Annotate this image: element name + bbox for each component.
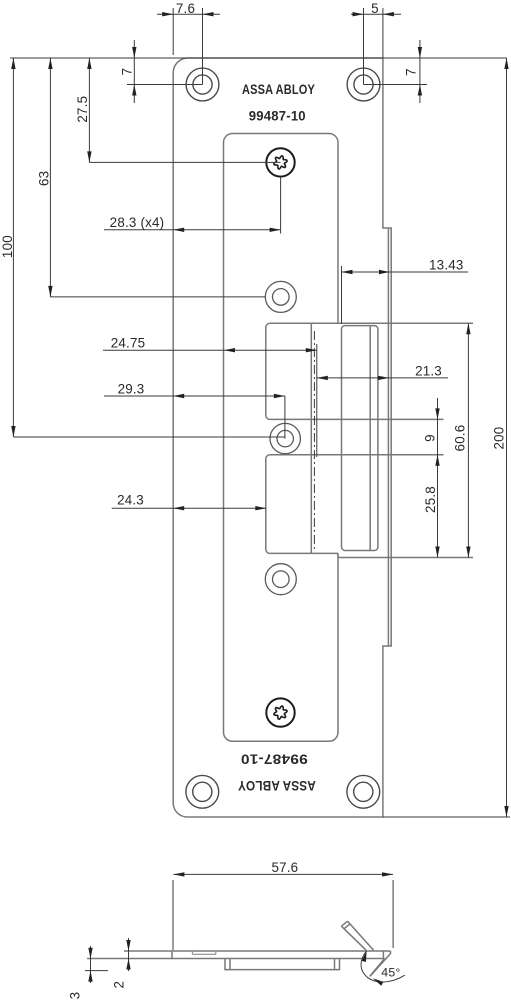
arrow 7L bottom (132, 85, 136, 96)
upper cutout left edge (266, 323, 270, 419)
side hole tick 2 (215, 951, 217, 954)
ext line tongue left up (341, 266, 343, 324)
dim line 13.43 (342, 271, 468, 273)
arrow 100 top (11, 58, 15, 69)
ext line 21.3/24.75 (316, 344, 318, 457)
latch bottom step vertical (337, 553, 339, 557)
arrow 29.3 left (173, 394, 184, 398)
svg-text:200: 200 (491, 427, 506, 450)
svg-text:9: 9 (422, 434, 437, 442)
svg-text:29.3: 29.3 (118, 381, 145, 396)
ext line torx center down (280, 177, 282, 234)
torx star at 280.5,162.4 (274, 156, 287, 169)
latch tongue box (342, 326, 378, 551)
arrow 24.3 left (173, 506, 184, 510)
torx screw circle at 280.5,712.6 (266, 698, 294, 726)
arrow 9 bottom (435, 455, 439, 466)
dim line 9 and 25.8 (437, 398, 439, 558)
arrow 5 left (353, 12, 364, 16)
45 degree arc (361, 951, 405, 982)
arrow 21.3 right (378, 376, 389, 380)
arrow 5 right (383, 12, 394, 16)
side hole tick 1 (191, 951, 193, 954)
center hole outer (270, 423, 300, 453)
arrow 100 bottom (11, 426, 15, 437)
arrow 27.5 top (87, 58, 91, 69)
dim line 100 (12, 58, 14, 437)
arrow 28.3 right (270, 228, 281, 232)
dim line 60.6 (467, 323, 469, 557)
svg-text:60.6: 60.6 (452, 425, 467, 452)
dim line 27.5 (88, 58, 90, 162)
adjustment hole inner at 280.8,296.9 (273, 289, 290, 306)
arrow 3 bottom (88, 971, 92, 982)
dim line 28.3 (104, 229, 281, 231)
latch recess vertical V3 (310, 323, 312, 553)
arrow 24.75 right (306, 348, 317, 352)
mounting hole inner at 363.5,84.5 (354, 75, 373, 94)
svg-text:5: 5 (371, 1, 379, 16)
ext line left hole center (202, 8, 204, 85)
dim line 57.6 (173, 873, 393, 875)
svg-text:2: 2 (111, 981, 126, 989)
lip inner edge line (387, 229, 389, 646)
dim line 7 right (419, 40, 421, 103)
raised panel left/bottom edges (224, 143, 339, 742)
bent tab (side view) (341, 921, 373, 950)
adjustment hole outer at 280.8,296.9 (265, 281, 296, 312)
latch mid edge H4 (270, 454, 444, 456)
mounting hole inner at 202.5,84.5 (193, 75, 212, 94)
dim line 7.6 (157, 13, 220, 15)
dim line 29.3 (104, 395, 285, 397)
adjustment hole inner at 280.8,579.2 (273, 571, 290, 588)
center hole inner (277, 430, 293, 446)
svg-text:3: 3 (67, 992, 82, 1000)
mounting hole outer at 363.5,84.5 (347, 68, 380, 101)
dim line 200 (506, 58, 508, 817)
side view bar bottom edge (87, 958, 385, 960)
svg-text:100: 100 (0, 235, 15, 258)
arrow 45 arc bottom (373, 978, 384, 985)
ext line 57.6 left (172, 880, 174, 950)
arrow 63 bottom (48, 286, 52, 297)
top hole centerline left (127, 84, 203, 86)
ext line center hole up (284, 396, 286, 439)
dim line 7 left (133, 40, 135, 103)
svg-text:7.6: 7.6 (176, 1, 195, 16)
arrow 2 bottom (126, 959, 130, 970)
adjustment hole outer at 280.8,579.2 (265, 564, 296, 595)
arrow 13.43 left (342, 270, 353, 274)
dim line 24.75 (103, 349, 317, 351)
svg-text:7: 7 (403, 68, 418, 76)
arrow 45 arc top (362, 951, 367, 962)
arrow 60.6 bottom (466, 547, 470, 558)
ref line hole y296 (50, 296, 265, 298)
svg-text:ASSA ABLOY: ASSA ABLOY (242, 81, 315, 97)
ext line plate left corner (172, 8, 174, 55)
arrow 29.3 right (274, 394, 285, 398)
arrow 7R top (418, 47, 422, 58)
svg-text:28.3 (x4): 28.3 (x4) (110, 215, 165, 230)
arrow 7L top (132, 47, 136, 58)
dim line 21.3 (317, 377, 448, 379)
bottom edge extension line (383, 816, 510, 818)
raised panel top/right edges (224, 134, 339, 324)
svg-text:7: 7 (119, 68, 134, 76)
arrow 7R bottom (418, 85, 422, 96)
svg-text:21.3: 21.3 (415, 363, 442, 378)
side view bar left end cap (171, 951, 173, 959)
side hole depth line (192, 953, 215, 955)
arrow 28.3 left (173, 228, 184, 232)
ext line plate right corner (382, 8, 384, 58)
arrow 57.6 left (173, 872, 184, 876)
arrow 9 top (435, 408, 439, 419)
top edge extension line (10, 57, 507, 59)
mounting hole outer at 202.5,84.5 (186, 68, 219, 101)
svg-text:ASSA ABLOY: ASSA ABLOY (237, 778, 315, 794)
torx star at 280.5,712.6 (274, 706, 287, 719)
arrow 7.6 left (162, 12, 173, 16)
side view raised panel box (225, 959, 340, 970)
svg-text:13.43: 13.43 (429, 257, 464, 272)
strike plate outline (front view) (173, 58, 391, 817)
45 deg lip wedge (370, 951, 391, 976)
arrow 27.5 bottom (87, 151, 91, 162)
latch mid edge H3 (270, 418, 444, 420)
latch top edge H1 (270, 322, 473, 324)
side view bar top edge (124, 950, 391, 952)
svg-text:25.8: 25.8 (423, 486, 438, 513)
arrow 57.6 right (382, 872, 393, 876)
arrow 13.43 right (379, 270, 390, 274)
dim line 5 (351, 13, 401, 15)
panel wall inner left (229, 959, 231, 970)
ext line right hole center (363, 8, 365, 85)
tongue inner vertical V7 (369, 326, 371, 551)
mounting hole outer at 363.3,791.8 (347, 775, 380, 808)
svg-text:99487-10: 99487-10 (249, 107, 306, 123)
svg-text:99487-10: 99487-10 (241, 752, 308, 768)
torx screw circle at 280.5,162.4 (266, 148, 294, 176)
latch bottom step line H7 (338, 557, 473, 559)
arrow 200 bottom (504, 806, 508, 817)
dim line 2 (128, 938, 130, 971)
svg-text:24.3: 24.3 (117, 492, 144, 507)
ref line torx center y (89, 161, 280, 163)
arrow 3 top (88, 948, 92, 959)
arrow 200 top (504, 58, 508, 69)
top hole centerline right (364, 84, 428, 86)
dim line 24.3 (112, 507, 267, 509)
dim line 3 (90, 946, 92, 983)
ref line 100 bottom (13, 436, 285, 438)
svg-text:27.5: 27.5 (75, 96, 90, 123)
dim line 63 (49, 58, 51, 297)
arrow 60.6 top (466, 323, 470, 334)
ref tick 3 bottom (85, 970, 108, 972)
mounting hole inner at 363.3,791.8 (354, 782, 373, 801)
lower cutout left edge (266, 455, 270, 554)
svg-text:45°: 45° (381, 966, 400, 980)
mounting hole inner at 202.3,791.8 (193, 782, 212, 801)
latch centerline dash-dot (313, 331, 315, 549)
lower cutout bottom edge H6 (270, 552, 338, 554)
svg-text:57.6: 57.6 (271, 860, 298, 875)
svg-text:24.75: 24.75 (111, 336, 146, 351)
arrow 24.3 right (255, 506, 266, 510)
arrow 2 top (126, 940, 130, 951)
mounting hole outer at 202.3,791.8 (186, 775, 219, 808)
arrow 21.3 left (317, 376, 328, 380)
arrow 25.8 bottom (435, 547, 439, 558)
arrow 24.75 left (224, 348, 235, 352)
ext line 57.6 right (392, 880, 394, 948)
panel wall inner right (334, 959, 336, 970)
bend line tick (382, 951, 384, 959)
arrow 63 top (48, 58, 52, 69)
svg-text:63: 63 (36, 171, 51, 186)
arrow 7.6 right (203, 12, 214, 16)
